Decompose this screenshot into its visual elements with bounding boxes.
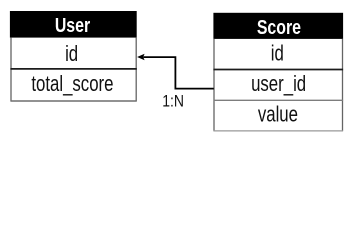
svg-text:total_score: total_score bbox=[31, 72, 113, 97]
svg-text:id: id bbox=[65, 42, 78, 67]
relationship wire Score.user_id to User.id bbox=[144, 57, 214, 89]
table User body borders bbox=[10, 38, 136, 101]
svg-text:user_id: user_id bbox=[251, 72, 306, 97]
svg-text:User: User bbox=[55, 14, 90, 36]
svg-text:value: value bbox=[258, 103, 298, 128]
table Score header box bbox=[213, 13, 343, 39]
table Score body borders bbox=[213, 39, 343, 131]
arrowhead into User.id bbox=[137, 54, 145, 61]
svg-text:Score: Score bbox=[257, 16, 301, 38]
svg-text:1:N: 1:N bbox=[162, 93, 184, 111]
table User header box bbox=[10, 11, 137, 38]
svg-text:id: id bbox=[271, 42, 284, 67]
